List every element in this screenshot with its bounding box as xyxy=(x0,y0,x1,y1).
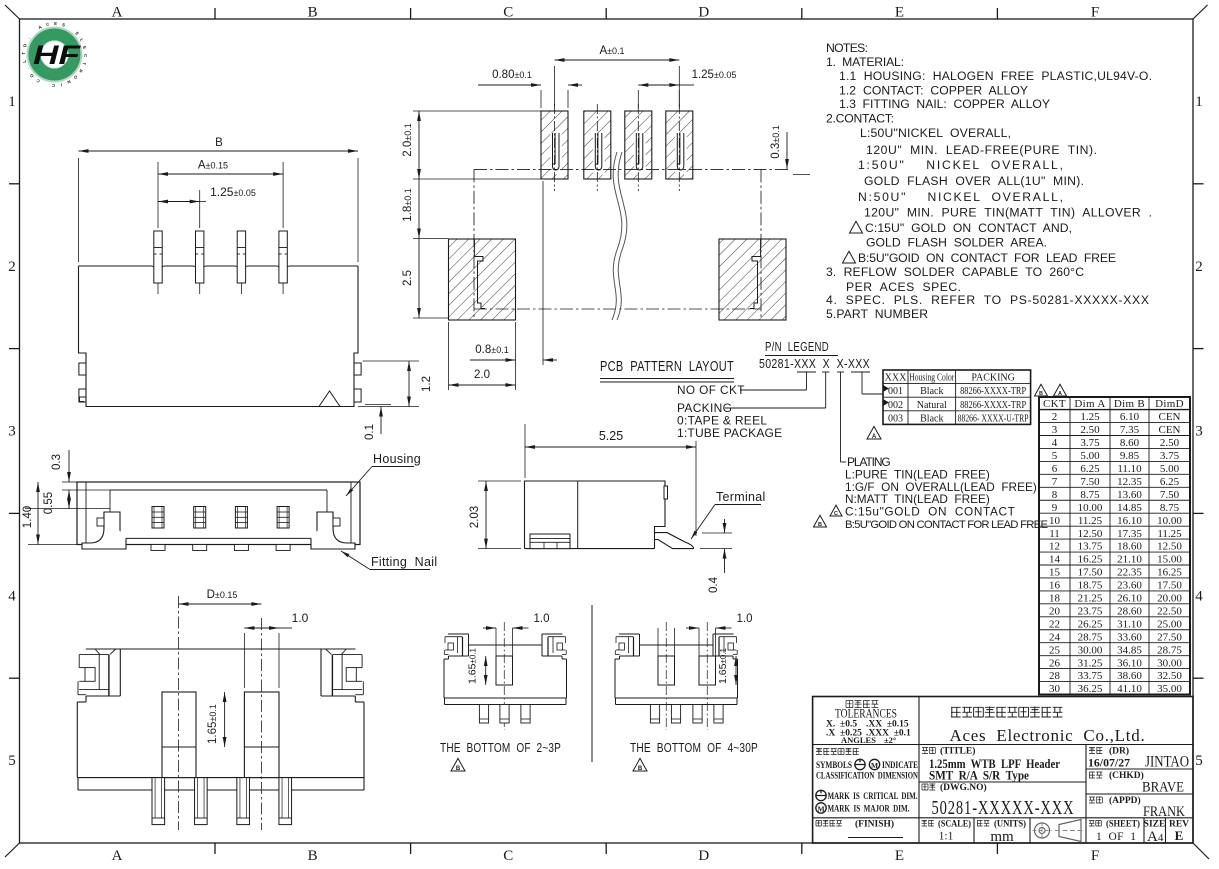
PACKING callout xyxy=(677,372,826,440)
svg-text:17.50: 17.50 xyxy=(1157,580,1182,592)
svg-text:28.75: 28.75 xyxy=(1078,631,1103,643)
svg-text:15: 15 xyxy=(1049,567,1061,579)
svg-text:36.10: 36.10 xyxy=(1117,657,1142,669)
front view contacts xyxy=(151,507,290,551)
svg-text:36.25: 36.25 xyxy=(1078,683,1103,695)
svg-text:1.0: 1.0 xyxy=(737,613,753,625)
svg-text:C: C xyxy=(503,848,513,864)
svg-text:1:TUBE PACKAGE: 1:TUBE PACKAGE xyxy=(677,426,782,440)
pcb pattern center lines xyxy=(474,169,790,318)
svg-text:mm: mm xyxy=(990,829,1014,845)
svg-text:26.25: 26.25 xyxy=(1078,618,1103,630)
svg-text:1: 1 xyxy=(1195,94,1203,110)
svg-text:5.25: 5.25 xyxy=(599,429,623,443)
svg-text:1.65±0.1: 1.65±0.1 xyxy=(467,648,479,685)
svg-text:Terminal: Terminal xyxy=(716,490,766,504)
svg-text:4: 4 xyxy=(1195,588,1203,604)
svg-text:1. MATERIAL:: 1. MATERIAL: xyxy=(826,55,904,69)
svg-text:TOLERANCES: TOLERANCES xyxy=(835,707,897,721)
svg-text:14: 14 xyxy=(1049,554,1061,566)
svg-text:A±0.1: A±0.1 xyxy=(599,45,624,57)
svg-text:8.60: 8.60 xyxy=(1120,437,1140,449)
pcb pattern top solder pads (hatched) xyxy=(541,104,693,191)
bottom view body xyxy=(77,649,364,790)
svg-text:2: 2 xyxy=(1052,411,1058,423)
svg-text:PACKING: PACKING xyxy=(971,373,1015,384)
svg-text:23.60: 23.60 xyxy=(1117,580,1142,592)
svg-text:MARK IS MAJOR DIM.: MARK IS MAJOR DIM. xyxy=(828,805,910,815)
dimension 1.2 right side xyxy=(358,361,433,407)
triangle A below legend xyxy=(867,426,881,439)
svg-text:34.85: 34.85 xyxy=(1117,644,1142,656)
front view housing outline xyxy=(77,482,360,545)
front view dim 0.3 xyxy=(51,450,78,482)
svg-text:B: B xyxy=(308,5,318,21)
svg-text:30.00: 30.00 xyxy=(1078,644,1103,656)
svg-text:D: D xyxy=(698,848,709,864)
APPD cell xyxy=(1089,795,1185,820)
svg-text:11.25: 11.25 xyxy=(1157,528,1182,540)
svg-text:2.5: 2.5 xyxy=(402,270,414,286)
notes text block xyxy=(826,41,1152,321)
P/N LEGEND heading xyxy=(765,340,838,356)
bottom view of 4~30P xyxy=(615,613,753,730)
svg-text:17.50: 17.50 xyxy=(1078,567,1103,579)
title cell xyxy=(922,746,1060,783)
packing option table xyxy=(883,370,1031,424)
svg-text:16.25: 16.25 xyxy=(1078,554,1103,566)
tolerances cell xyxy=(826,700,911,745)
svg-text:5: 5 xyxy=(1052,450,1058,462)
svg-text:PCB PATTERN LAYOUT: PCB PATTERN LAYOUT xyxy=(600,359,734,375)
svg-text:22.35: 22.35 xyxy=(1117,567,1142,579)
link to packing table xyxy=(862,372,883,394)
svg-text:5: 5 xyxy=(8,753,16,769)
finish cell xyxy=(816,819,903,838)
svg-text:10: 10 xyxy=(1049,515,1061,527)
CHKD cell xyxy=(1089,770,1184,796)
break squiggle line xyxy=(612,152,627,320)
svg-text:12.50: 12.50 xyxy=(1078,528,1103,540)
svg-text:1.25±0.05: 1.25±0.05 xyxy=(692,69,737,81)
dimension A+-0.15 xyxy=(158,160,283,229)
HF company logo xyxy=(21,21,88,88)
svg-text:2.50: 2.50 xyxy=(1080,424,1100,436)
svg-text:120U" MIN. PURE TIN(MATT T: 120U" MIN. PURE TIN(MATT TIN) ALLOVER . xyxy=(864,206,1152,220)
svg-text:Housing Color: Housing Color xyxy=(909,373,955,384)
svg-text:24: 24 xyxy=(1049,631,1061,643)
caption 4~30P xyxy=(630,741,758,772)
dim 2.03 xyxy=(469,481,521,549)
svg-text:HF: HF xyxy=(33,40,82,70)
svg-text:41.10: 41.10 xyxy=(1117,683,1142,695)
dim 0.4 xyxy=(700,519,732,593)
front view fitting nails xyxy=(82,512,126,549)
svg-text:1.40: 1.40 xyxy=(22,506,34,528)
svg-text:(CHKD): (CHKD) xyxy=(1109,770,1144,781)
svg-text:MARK IS CRITICAL DIM.: MARK IS CRITICAL DIM. xyxy=(828,792,918,802)
svg-text:Fitting Nail: Fitting Nail xyxy=(371,555,437,569)
svg-text:22.50: 22.50 xyxy=(1157,605,1182,617)
svg-text:6: 6 xyxy=(1052,463,1058,475)
svg-text:120U" MIN. LEAD-FREE(PURE T: 120U" MIN. LEAD-FREE(PURE TIN). xyxy=(866,143,1097,157)
top view pins xyxy=(154,231,287,294)
svg-text:3.75: 3.75 xyxy=(1160,450,1180,462)
svg-text:001: 001 xyxy=(888,386,903,397)
svg-text:(SCALE): (SCALE) xyxy=(938,819,971,830)
svg-text:2: 2 xyxy=(1195,259,1203,275)
svg-text:10.00: 10.00 xyxy=(1078,502,1103,514)
svg-text:3. REFLOW SOLDER CAPABLE T: 3. REFLOW SOLDER CAPABLE TO 260°C xyxy=(826,265,1084,279)
svg-text:11: 11 xyxy=(1049,528,1060,540)
svg-text:18.60: 18.60 xyxy=(1117,541,1142,553)
svg-text:B: B xyxy=(818,522,822,528)
svg-text:12.35: 12.35 xyxy=(1117,476,1142,488)
svg-text:12.50: 12.50 xyxy=(1157,541,1182,553)
svg-text:XXX: XXX xyxy=(885,373,907,384)
dim 1.0 bottom view xyxy=(244,611,308,688)
svg-text:13.60: 13.60 xyxy=(1117,489,1142,501)
svg-text:11.10: 11.10 xyxy=(1117,463,1142,475)
scale cell xyxy=(922,819,972,843)
svg-text:3: 3 xyxy=(1052,424,1058,436)
svg-text:GOLD FLASH OVER ALL(1U" MI: GOLD FLASH OVER ALL(1U" MIN). xyxy=(864,174,1084,188)
svg-text:27.50: 27.50 xyxy=(1157,631,1182,643)
svg-text:0.3: 0.3 xyxy=(51,454,63,470)
svg-text:15.00: 15.00 xyxy=(1157,554,1182,566)
svg-text:31.25: 31.25 xyxy=(1078,657,1103,669)
svg-text:Dim A: Dim A xyxy=(1074,398,1105,410)
svg-text:NO OF CKT: NO OF CKT xyxy=(677,383,745,397)
svg-text:16.10: 16.10 xyxy=(1117,515,1142,527)
svg-text:E: E xyxy=(1175,828,1184,843)
svg-text:35.00: 35.00 xyxy=(1157,683,1182,695)
svg-text:B: B xyxy=(215,137,223,149)
svg-text:3: 3 xyxy=(8,424,16,440)
projection symbol cell xyxy=(1033,820,1086,842)
svg-text:2: 2 xyxy=(8,259,16,275)
Fitting Nail label xyxy=(341,551,437,570)
separator line between small views xyxy=(591,605,593,762)
svg-text:11.25: 11.25 xyxy=(1078,515,1103,527)
svg-text:Natural: Natural xyxy=(917,400,947,411)
svg-text:FRANK: FRANK xyxy=(1143,804,1185,820)
bottom view pads xyxy=(162,692,279,778)
part number breakdown xyxy=(759,357,870,372)
top view bottom-left step xyxy=(80,397,87,402)
svg-text:CEN: CEN xyxy=(1159,411,1181,423)
svg-text:21.10: 21.10 xyxy=(1117,554,1142,566)
svg-text:P/N LEGEND: P/N LEGEND xyxy=(765,340,829,354)
svg-text:4. SPEC. PLS. REFER TO PS: 4. SPEC. PLS. REFER TO PS-50281-XXXXX-XX… xyxy=(826,293,1149,307)
svg-text:33.60: 33.60 xyxy=(1117,631,1142,643)
svg-text:20.00: 20.00 xyxy=(1157,593,1182,605)
svg-text:26: 26 xyxy=(1049,657,1061,669)
PLATING callout xyxy=(814,372,1049,531)
svg-text:DimD: DimD xyxy=(1155,398,1184,410)
svg-text:0.8±0.1: 0.8±0.1 xyxy=(475,344,508,356)
svg-text:(UNITS): (UNITS) xyxy=(994,819,1026,830)
svg-text:50281-XXX X X-XXX: 50281-XXX X X-XXX xyxy=(759,357,870,371)
svg-text:88266- XXXX-U-TRP: 88266- XXXX-U-TRP xyxy=(958,413,1029,424)
svg-text:0.1: 0.1 xyxy=(364,424,376,440)
svg-text:ANGLES: ANGLES xyxy=(841,735,876,745)
svg-text:26.10: 26.10 xyxy=(1117,593,1142,605)
svg-text:(FINISH): (FINISH) xyxy=(855,819,894,830)
svg-text:F: F xyxy=(1091,5,1099,21)
svg-text:4: 4 xyxy=(8,588,16,604)
NO OF CKT callout xyxy=(677,372,807,397)
svg-text:A: A xyxy=(1058,391,1062,397)
bottom dimensions 0.8 and 2.0 xyxy=(449,181,558,390)
svg-text:Dim B: Dim B xyxy=(1114,398,1145,410)
svg-text:2.50: 2.50 xyxy=(1160,437,1180,449)
svg-text:B: B xyxy=(456,766,461,772)
svg-text:1.2 CONTACT: COPPER ALLOY: 1.2 CONTACT: COPPER ALLOY xyxy=(839,84,1028,98)
svg-text:(DR): (DR) xyxy=(1109,746,1129,757)
dimension A+-0.1 xyxy=(555,45,680,106)
svg-text:1:1: 1:1 xyxy=(939,831,954,843)
svg-text:4: 4 xyxy=(1052,437,1058,449)
dimension 0.3+-0.1 xyxy=(770,125,810,174)
svg-text:30: 30 xyxy=(1049,683,1061,695)
svg-text:20: 20 xyxy=(1049,605,1061,617)
PCB PATTERN LAYOUT label xyxy=(600,359,734,382)
svg-text:9: 9 xyxy=(1052,502,1058,514)
svg-text:1.65±0.1: 1.65±0.1 xyxy=(717,648,729,685)
svg-text:GOLD FLASH SOLDER AREA.: GOLD FLASH SOLDER AREA. xyxy=(866,236,1047,250)
svg-text:3: 3 xyxy=(1195,424,1203,440)
svg-text:Black: Black xyxy=(920,386,943,397)
svg-text:E: E xyxy=(895,848,904,864)
svg-text:1:50U" NICKEL OVERALL,: 1:50U" NICKEL OVERALL, xyxy=(858,158,1063,172)
svg-text:8.75: 8.75 xyxy=(1160,502,1180,514)
svg-text:B: B xyxy=(1039,391,1043,397)
svg-text:16: 16 xyxy=(1049,580,1061,592)
svg-text:16/07/27: 16/07/27 xyxy=(1088,758,1130,770)
dimension 0.1 right side xyxy=(364,405,391,441)
svg-text:0.80±0.1: 0.80±0.1 xyxy=(492,69,532,81)
svg-text:30.00: 30.00 xyxy=(1157,657,1182,669)
svg-text:B: B xyxy=(308,848,318,864)
svg-text:1.0: 1.0 xyxy=(534,613,550,625)
dwg no cell xyxy=(922,782,1075,819)
svg-text:C: C xyxy=(503,5,513,21)
svg-text:N:50U" NICKEL OVERALL,: N:50U" NICKEL OVERALL, xyxy=(858,190,1063,204)
svg-text:17.35: 17.35 xyxy=(1117,528,1142,540)
bottom view ears xyxy=(77,649,120,702)
svg-text:(TITLE): (TITLE) xyxy=(940,746,975,757)
svg-text:1.0: 1.0 xyxy=(292,611,309,625)
svg-text:88266-XXXX-TRP: 88266-XXXX-TRP xyxy=(960,400,1026,411)
svg-text:THE BOTTOM OF 2~3P: THE BOTTOM OF 2~3P xyxy=(440,741,561,755)
svg-text:B:5U"GOID ON CONTACT FOR LEAD: B:5U"GOID ON CONTACT FOR LEAD FREE xyxy=(845,519,1048,531)
svg-text:25.00: 25.00 xyxy=(1157,618,1182,630)
svg-text:F: F xyxy=(1091,848,1099,864)
svg-text:L:50U"NICKEL OVERALL,: L:50U"NICKEL OVERALL, xyxy=(860,126,1011,140)
svg-text:CLASSIFICATION DIMENSION: CLASSIFICATION DIMENSION xyxy=(816,772,918,782)
size cell xyxy=(1144,820,1166,846)
svg-text:1.25: 1.25 xyxy=(1080,411,1100,423)
front view dim 0.55 xyxy=(25,490,110,514)
triangles above CKT table xyxy=(1035,384,1048,396)
svg-text:A4: A4 xyxy=(1147,829,1164,845)
svg-text:1.65±0.1: 1.65±0.1 xyxy=(207,704,219,744)
svg-text:16.25: 16.25 xyxy=(1157,567,1182,579)
svg-text:31.10: 31.10 xyxy=(1117,618,1142,630)
svg-text:33.75: 33.75 xyxy=(1078,670,1103,682)
svg-text:6.25: 6.25 xyxy=(1160,476,1180,488)
bottom view of 2~3P xyxy=(444,613,567,730)
svg-text:28.60: 28.60 xyxy=(1117,605,1142,617)
svg-text:A: A xyxy=(112,5,123,21)
svg-text:8.75: 8.75 xyxy=(1080,489,1100,501)
svg-text:21.25: 21.25 xyxy=(1078,593,1103,605)
svg-text:Housing: Housing xyxy=(373,452,421,466)
svg-text:B: B xyxy=(638,766,643,772)
dimension 0.80+-0.1 xyxy=(478,69,582,108)
svg-text:25: 25 xyxy=(1049,644,1061,656)
svg-text:003: 003 xyxy=(888,413,903,424)
svg-text:A: A xyxy=(112,848,123,864)
svg-text:1.1 HOUSING: HALOGEN FREE: 1.1 HOUSING: HALOGEN FREE PLASTIC,UL94V-… xyxy=(839,69,1152,83)
rev cell xyxy=(1169,820,1189,844)
bottom view centerlines xyxy=(179,596,262,830)
svg-text:002: 002 xyxy=(888,400,903,411)
Terminal label xyxy=(691,490,766,539)
svg-text:SIZE: SIZE xyxy=(1144,820,1166,830)
svg-text:(SHEET): (SHEET) xyxy=(1106,819,1140,830)
svg-text:C:15U" GOLD ON CONTACT AND: C:15U" GOLD ON CONTACT AND, xyxy=(865,221,1072,235)
svg-text:A±0.15: A±0.15 xyxy=(198,160,228,172)
svg-text:50281-XXXXX-XXX: 50281-XXXXX-XXX xyxy=(932,798,1075,819)
svg-text:C:15u"GOLD ON CONTACT: C:15u"GOLD ON CONTACT xyxy=(845,505,1015,519)
svg-text:8: 8 xyxy=(1052,489,1058,501)
svg-text:M: M xyxy=(817,804,824,813)
svg-text:2.CONTACT:: 2.CONTACT: xyxy=(826,112,894,126)
top view connector body xyxy=(79,266,362,407)
svg-text:22: 22 xyxy=(1049,618,1060,630)
units cell xyxy=(977,819,1026,846)
sheet cell xyxy=(1089,819,1140,844)
svg-text:1 OF 1: 1 OF 1 xyxy=(1096,831,1136,843)
svg-text:D: D xyxy=(698,5,709,21)
Housing label xyxy=(346,452,421,496)
bottom view pins xyxy=(152,778,292,825)
svg-text:C: C xyxy=(52,83,55,88)
svg-text:SYMBOLS: SYMBOLS xyxy=(816,761,852,771)
svg-text:THE BOTTOM OF 4~30P: THE BOTTOM OF 4~30P xyxy=(630,741,758,755)
top view index triangle mark xyxy=(319,391,340,407)
front view dim 1.40 xyxy=(22,482,77,545)
dim D+-0.15 xyxy=(179,589,262,606)
svg-text:0.55: 0.55 xyxy=(43,492,55,514)
svg-text:7.50: 7.50 xyxy=(1080,476,1100,488)
svg-text:INDICATE: INDICATE xyxy=(882,761,918,771)
svg-text:2.0±0.1: 2.0±0.1 xyxy=(402,123,414,156)
svg-text:0.4: 0.4 xyxy=(708,576,720,593)
profile contact stack xyxy=(530,534,570,549)
svg-text:5.00: 5.00 xyxy=(1080,450,1100,462)
profile terminal xyxy=(655,533,694,549)
svg-text:(DWG.NO): (DWG.NO) xyxy=(940,782,987,793)
svg-text:BRAVE: BRAVE xyxy=(1142,780,1184,796)
svg-text:88266-XXXX-TRP: 88266-XXXX-TRP xyxy=(960,386,1026,397)
svg-text:38.60: 38.60 xyxy=(1117,670,1142,682)
svg-text:23.75: 23.75 xyxy=(1078,605,1103,617)
svg-text:12: 12 xyxy=(1049,541,1060,553)
dim 1.65+-0.1 bottom view xyxy=(196,692,230,747)
dimension 1.25+-0.05 top view xyxy=(158,185,256,228)
svg-text:SMT R/A S/R Type: SMT R/A S/R Type xyxy=(929,769,1029,783)
svg-text:5.00: 5.00 xyxy=(1160,463,1180,475)
svg-text:1.3 FITTING NAIL: COPPER A: 1.3 FITTING NAIL: COPPER ALLOY xyxy=(839,97,1050,111)
pcb pattern bottom pads (hatched) xyxy=(449,239,787,320)
svg-text:B:5U"GOID ON CONTACT FOR L: B:5U"GOID ON CONTACT FOR LEAD FREE xyxy=(858,251,1116,265)
svg-text:28.75: 28.75 xyxy=(1157,644,1182,656)
svg-text:C: C xyxy=(834,511,838,517)
svg-text:18: 18 xyxy=(1049,593,1061,605)
svg-text:14.85: 14.85 xyxy=(1117,502,1142,514)
svg-text:6.25: 6.25 xyxy=(1080,463,1100,475)
svg-text:D±0.15: D±0.15 xyxy=(207,589,238,601)
svg-text:10.00: 10.00 xyxy=(1157,515,1182,527)
CKT dimension table xyxy=(1039,397,1190,695)
svg-text:Black: Black xyxy=(920,413,943,424)
svg-text:3.75: 3.75 xyxy=(1080,437,1100,449)
svg-text:5.PART NUMBER: 5.PART NUMBER xyxy=(826,307,928,321)
svg-text:1.25±0.05: 1.25±0.05 xyxy=(210,185,256,199)
svg-text:NOTES:: NOTES: xyxy=(826,41,868,55)
caption 2~3P xyxy=(440,741,561,772)
svg-text:6.10: 6.10 xyxy=(1120,411,1140,423)
svg-text:CKT: CKT xyxy=(1043,398,1066,410)
svg-text:5: 5 xyxy=(1195,753,1203,769)
svg-text:Aces Electronic Co.,Ltd.: Aces Electronic Co.,Ltd. xyxy=(950,726,1147,745)
svg-text:7.35: 7.35 xyxy=(1120,424,1140,436)
dim 5.25 xyxy=(525,424,696,536)
title block frame xyxy=(813,697,1193,844)
svg-text:(APPD): (APPD) xyxy=(1109,795,1141,806)
svg-text:1: 1 xyxy=(8,94,16,110)
company names xyxy=(950,707,1147,746)
DR cell xyxy=(1088,746,1189,771)
svg-text:1.8±0.1: 1.8±0.1 xyxy=(402,188,414,221)
svg-text:C: C xyxy=(83,54,88,57)
svg-text:1.2: 1.2 xyxy=(421,376,433,392)
symbols cell xyxy=(816,748,918,815)
profile view body xyxy=(525,481,668,549)
svg-text:PER ACES SPEC.: PER ACES SPEC. xyxy=(846,280,961,294)
svg-text:9.85: 9.85 xyxy=(1120,450,1140,462)
svg-text:2.0: 2.0 xyxy=(474,369,490,381)
svg-text:2.03: 2.03 xyxy=(469,506,481,528)
svg-text:±2°: ±2° xyxy=(884,735,896,745)
svg-text:7: 7 xyxy=(1052,476,1058,488)
svg-text:E: E xyxy=(54,21,57,26)
svg-text:0.3±0.1: 0.3±0.1 xyxy=(770,125,782,158)
svg-text:A: A xyxy=(872,434,877,440)
svg-text:CEN: CEN xyxy=(1159,424,1181,436)
svg-text:7.50: 7.50 xyxy=(1160,489,1180,501)
left dimensions 2.0 1.8 2.5 xyxy=(402,111,541,318)
svg-text:28: 28 xyxy=(1049,670,1061,682)
dimension 1.25+-0.05 pcb xyxy=(638,69,736,108)
svg-text:18.75: 18.75 xyxy=(1078,580,1103,592)
svg-text:13.75: 13.75 xyxy=(1078,541,1103,553)
dimension B xyxy=(79,137,359,262)
svg-text:JINTAO: JINTAO xyxy=(1145,754,1189,771)
